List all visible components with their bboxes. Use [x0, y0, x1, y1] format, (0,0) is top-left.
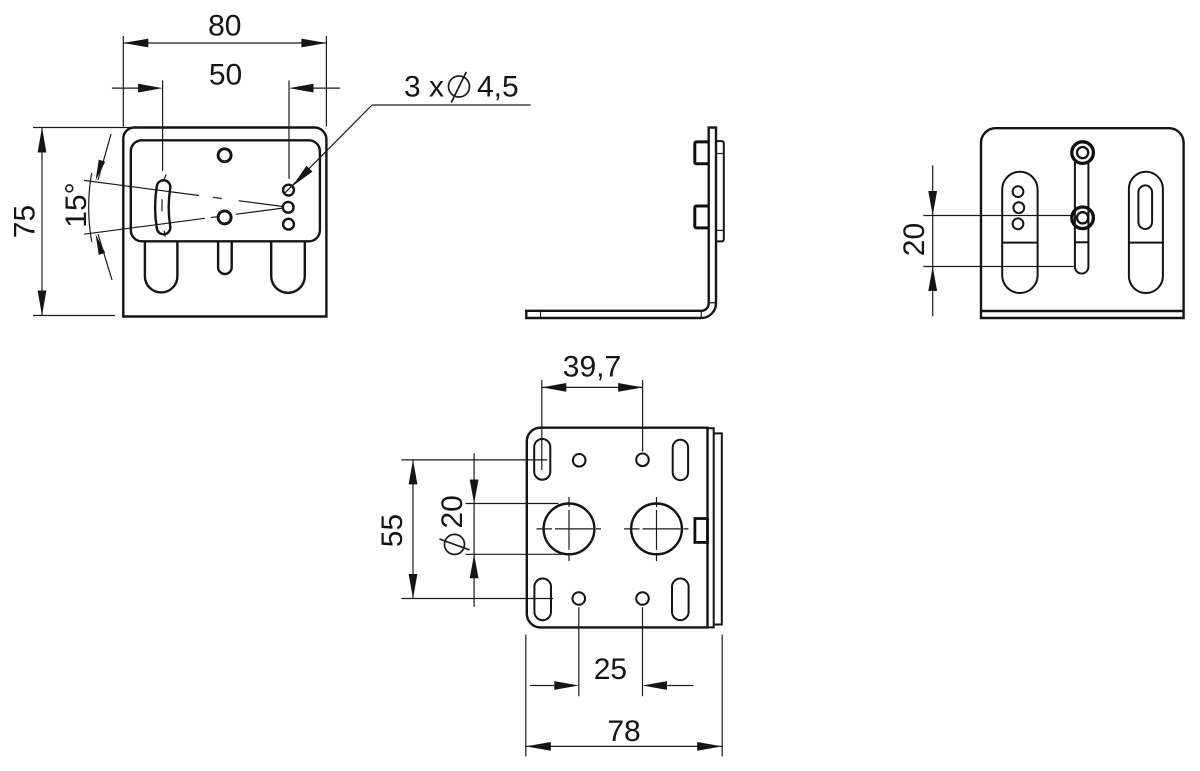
flange outer line — [714, 433, 722, 624]
dim 80 extension lines — [122, 36, 124, 127]
construction ray upper — [84, 180, 283, 206]
dim 50 line — [112, 87, 340, 89]
bend tangent tick leg — [700, 311, 702, 318]
flange inner line — [708, 428, 714, 627]
rear bottom fold line — [981, 310, 1184, 312]
top hole — [218, 149, 231, 162]
dim 25 ext lines — [578, 607, 580, 696]
top bolt outer — [1072, 142, 1094, 164]
corner slot top-left — [534, 439, 550, 480]
dim 75 arrows — [38, 128, 47, 153]
strip tick upper — [716, 153, 724, 155]
leader underline — [372, 104, 531, 106]
rear right slot — [1129, 172, 1163, 293]
center hole — [218, 211, 231, 224]
rear middle strap — [1075, 162, 1089, 274]
dim 78 ext lines — [525, 635, 527, 757]
dim 25 arrows — [554, 681, 579, 690]
construction ray lower — [84, 208, 283, 234]
front outer plate — [123, 128, 326, 317]
rear left slot chord — [1002, 242, 1037, 244]
dim 55 arrows — [409, 460, 418, 485]
svg-text:20: 20 — [898, 223, 931, 256]
15 deg arrowhead top — [96, 160, 106, 181]
bend tangent tick vertical plate — [709, 302, 716, 304]
middle U-slot — [218, 241, 232, 274]
rear plate outline — [981, 128, 1184, 318]
rear right slot inner obround — [1138, 185, 1152, 229]
front raised face (inner rounded rect) — [131, 140, 320, 241]
side profile outline — [526, 128, 716, 318]
dim 25 line — [530, 685, 693, 687]
leg end tick — [540, 311, 542, 318]
dim 80 arrows — [123, 39, 148, 48]
centerlines left circle — [537, 528, 602, 530]
dim 20 ext bottom — [923, 266, 1073, 268]
svg-text:50: 50 — [209, 59, 242, 92]
rear slot hole 3 — [1013, 218, 1024, 229]
svg-text:78: 78 — [607, 715, 640, 748]
pivot hole lower — [283, 219, 294, 230]
rear slot hole 2 — [1013, 202, 1024, 213]
small hole top-left — [573, 454, 586, 467]
bottom plate outline — [527, 428, 708, 628]
rear right slot chord — [1129, 242, 1163, 244]
strip tick lower — [716, 229, 724, 231]
dim 39,7 ext lines — [541, 380, 543, 470]
small hole top-right — [636, 454, 649, 467]
corner slot top-right — [673, 440, 688, 480]
lower bolt inner — [1077, 212, 1088, 223]
small hole bottom-right — [636, 592, 649, 605]
dim 20 ext top — [923, 215, 1070, 217]
strap chord — [1075, 241, 1089, 243]
pivot hole middle — [283, 202, 294, 213]
svg-text:39,7: 39,7 — [563, 351, 621, 384]
dim 20 line — [932, 165, 934, 316]
lower bolt outer — [1072, 207, 1094, 229]
dim 50 arrows — [138, 84, 163, 93]
dim 50 extension lines — [162, 81, 164, 172]
15 deg slash top — [98, 134, 111, 180]
left U-slot — [145, 241, 178, 292]
pivot hole upper (3x4.5 target) — [283, 185, 294, 196]
svg-text:4,5: 4,5 — [477, 71, 519, 104]
dim 75 line — [41, 128, 43, 316]
dim dia20 arrows — [470, 480, 479, 504]
15 deg arrowhead bottom — [96, 234, 106, 255]
right U-slot — [271, 241, 305, 292]
dim 80 line — [123, 42, 326, 44]
corner slot bottom-left — [534, 579, 551, 621]
svg-text:15°: 15° — [60, 182, 93, 227]
15 deg dimension arc — [89, 173, 92, 242]
svg-text:20: 20 — [436, 495, 469, 528]
15 deg slash bottom — [98, 234, 112, 280]
dim 75 extension lines — [33, 127, 138, 129]
dim 55 line — [412, 460, 414, 599]
dim 55 ext lines — [401, 459, 547, 461]
rear slot hole 1 — [1013, 186, 1024, 197]
centerlines right circle — [624, 528, 689, 530]
corner slot bottom-right — [672, 579, 689, 621]
top bolt inner — [1077, 147, 1088, 158]
dim 39,7 line — [542, 386, 643, 388]
svg-text:80: 80 — [208, 10, 241, 43]
screw head lower — [695, 206, 709, 228]
leader diagonal — [284, 105, 372, 194]
screw head upper — [695, 142, 709, 164]
dim dia20 ext lines — [466, 503, 559, 505]
dim 78 arrows — [526, 742, 551, 751]
arc slot — [155, 180, 170, 234]
dim 20 arrows — [928, 191, 937, 216]
tab — [695, 519, 708, 543]
back face strip — [716, 141, 724, 241]
svg-text:3 x: 3 x — [404, 71, 444, 104]
dim 78 line — [526, 745, 722, 747]
big circle right — [631, 504, 682, 555]
svg-text:75: 75 — [9, 205, 42, 238]
leader arrowhead — [292, 166, 312, 186]
dim 39,7 arrows — [542, 383, 567, 392]
rear left slot — [1002, 172, 1037, 293]
arc slot centerline ticks — [162, 174, 166, 236]
svg-text:25: 25 — [594, 653, 627, 686]
small hole bottom-left — [573, 592, 586, 605]
svg-text:55: 55 — [376, 514, 409, 547]
big circle left — [544, 504, 595, 555]
dim dia20 line — [473, 453, 475, 607]
